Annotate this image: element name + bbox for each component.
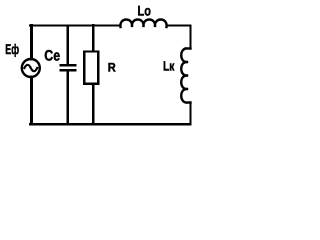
svg-text:Lк: Lк	[163, 58, 175, 73]
wire capacitor lower stub	[66, 72, 68, 125]
source Ef circle	[22, 59, 40, 77]
wire left upper vertical	[30, 26, 33, 60]
wire left lower vertical	[30, 77, 33, 124]
wire top-right horizontal	[167, 24, 191, 26]
svg-text:Lо: Lо	[138, 3, 151, 19]
capacitor Ce plates	[61, 65, 75, 70]
wire resistor upper stub	[92, 26, 95, 51]
svg-text:Се: Се	[44, 48, 60, 65]
inductor Lk	[181, 48, 190, 102]
wire resistor lower stub	[92, 84, 95, 124]
svg-text:R: R	[108, 61, 116, 75]
svg-text:Еф: Еф	[5, 41, 19, 57]
wire right upper vertical	[189, 26, 191, 49]
wire right lower vertical	[189, 103, 191, 125]
wire top-left horizontal	[30, 24, 121, 26]
inductor Lo	[120, 20, 166, 28]
wire bottom horizontal	[30, 123, 191, 125]
source Ef sine	[24, 65, 37, 71]
resistor R body	[84, 52, 98, 84]
wire capacitor upper stub	[66, 26, 68, 65]
